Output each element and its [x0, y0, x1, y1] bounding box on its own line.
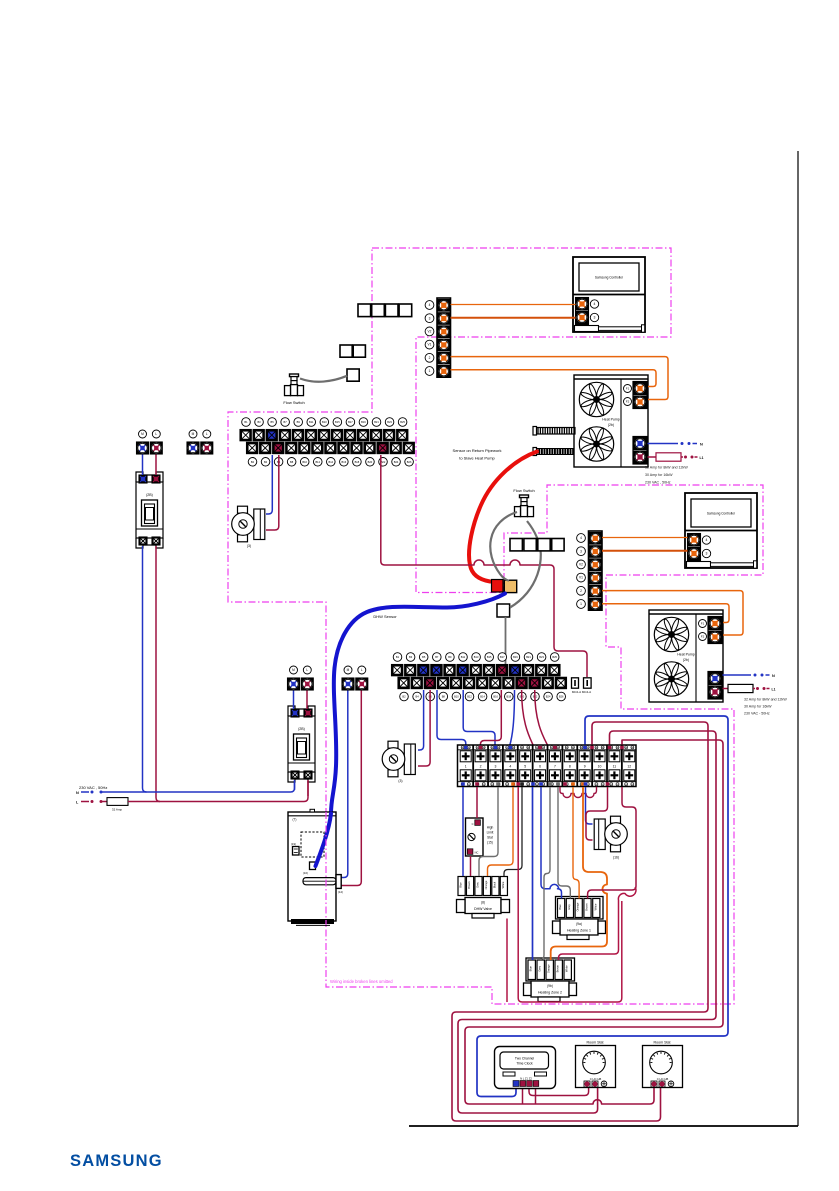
svg-text:B25: B25: [400, 420, 405, 424]
12-way terminal strip TB5: [458, 745, 637, 787]
svg-text:B15: B15: [487, 655, 492, 659]
svg-text:Black: Black: [492, 881, 496, 888]
svg-text:B2: B2: [251, 460, 255, 464]
wire (maroon) to pump16: [586, 787, 608, 840]
wire B6b to pump P2: [418, 690, 430, 766]
svg-text:32 Amp for 8kW and 12kW: 32 Amp for 8kW and 12kW: [744, 698, 787, 702]
wire L to breaker: [155, 455, 157, 476]
svg-text:N L Z1 Z2: N L Z1 Z2: [520, 1076, 532, 1080]
svg-text:B19: B19: [361, 420, 366, 424]
heat pump HP2 (2b): [649, 610, 723, 702]
svg-text:B2: B2: [402, 695, 406, 699]
high limit stat (15): [466, 818, 484, 856]
svg-text:V2: V2: [428, 330, 432, 334]
svg-text:1: 1: [429, 369, 431, 373]
wire L to breaker Q2: [306, 691, 308, 710]
svg-text:M: M: [347, 668, 350, 672]
wire (maroon) TB5-11 to heating zone1 t4: [588, 787, 636, 899]
svg-text:4: 4: [706, 538, 708, 542]
svg-text:V1: V1: [428, 343, 432, 347]
M/L terminals pair 4: [342, 666, 369, 691]
terminal strip TB3 (B1-B26): [391, 664, 403, 676]
svg-text:Samsung Controller: Samsung Controller: [707, 512, 736, 516]
grey wire white square down to TB3: [505, 617, 507, 664]
svg-text:N: N: [76, 791, 79, 795]
svg-text:3: 3: [494, 764, 496, 768]
breaker1 down wires to supply: [143, 546, 147, 792]
svg-text:L: L: [206, 432, 208, 436]
svg-text:DHW Valve: DHW Valve: [474, 907, 492, 911]
svg-text:(16): (16): [613, 856, 619, 860]
wire (blue) to pump16: [586, 787, 593, 824]
svg-text:(9b): (9b): [547, 984, 553, 988]
svg-text:(3): (3): [398, 779, 402, 783]
svg-text:to Slave Heat Pump: to Slave Heat Pump: [459, 456, 495, 461]
svg-text:4: 4: [429, 303, 431, 307]
svg-text:Room Stat: Room Stat: [654, 1041, 671, 1045]
clock Z2 tap: [535, 1086, 537, 1104]
wire TB5-3 (grey) to DHW Grey: [479, 787, 498, 876]
wire (orange) to heating zone1 t3: [573, 787, 579, 899]
svg-text:Grey: Grey: [567, 903, 571, 909]
svg-text:B8: B8: [442, 695, 446, 699]
HP2 L1 wire + fuse: [723, 688, 729, 690]
heating zone 1 body: [560, 919, 598, 935]
cylinder (7): [288, 812, 336, 921]
svg-text:White: White: [501, 881, 505, 888]
maroon loop B: TB5 to room stat 1 HC: [458, 731, 716, 1113]
svg-text:1: 1: [465, 764, 467, 768]
svg-text:B4: B4: [416, 695, 420, 699]
svg-text:M: M: [141, 432, 144, 436]
maroon loop A: TB5 to room stat 2 HC: [452, 722, 708, 1121]
svg-text:B18: B18: [506, 695, 511, 699]
svg-text:M: M: [292, 668, 295, 672]
svg-text:B3: B3: [257, 420, 261, 424]
wire high limit stat NC to DHW Brown: [470, 856, 472, 876]
svg-text:B20: B20: [368, 460, 373, 464]
svg-text:B14: B14: [328, 460, 333, 464]
wire (blue) to heating zone2 t1: [532, 787, 534, 960]
svg-text:B26: B26: [407, 460, 412, 464]
wire B22 to MC4-A (maroon, with hops): [381, 455, 587, 677]
svg-text:9: 9: [584, 764, 586, 768]
terminal strip TB4 (vertical 4,3,V2,V1,2,1): [577, 531, 602, 611]
junction white square: [497, 604, 510, 617]
heat pump HP1 (2b): [574, 375, 648, 467]
svg-text:MC2-A MC4-A: MC2-A MC4-A: [572, 690, 591, 694]
svg-text:Stat: Stat: [487, 836, 493, 840]
svg-text:B17: B17: [500, 655, 505, 659]
svg-text:32 Amp for 8kW and 12kW: 32 Amp for 8kW and 12kW: [645, 466, 688, 470]
svg-text:B5: B5: [271, 420, 275, 424]
TB5 bottom wire marks: [461, 782, 465, 785]
wire B5b to pump P2: [418, 690, 424, 750]
M/L terminals pair 2 (spare): [187, 430, 214, 455]
HP1 N wire: [648, 443, 679, 445]
svg-text:F2: F2: [626, 400, 630, 404]
svg-text:3: 3: [580, 549, 582, 553]
M/L terminals pair 1: [136, 430, 163, 455]
svg-text:B17: B17: [348, 420, 353, 424]
red sensor cable to junction: [469, 452, 537, 582]
grey wire FS2 left to tan connector: [490, 512, 517, 581]
wire B22b to terminal 6: [535, 690, 548, 746]
svg-text:30 Amp for 16kW: 30 Amp for 16kW: [744, 705, 772, 709]
svg-text:B24: B24: [394, 460, 399, 464]
svg-text:(10): (10): [303, 871, 308, 875]
svg-text:B9: B9: [448, 655, 452, 659]
immersion element (12): [303, 878, 336, 885]
svg-text:B18: B18: [355, 460, 360, 464]
svg-text:(8): (8): [481, 901, 485, 905]
wire B20 to terminal 5: [522, 690, 534, 746]
wire M to breaker Q2: [293, 691, 295, 710]
squiggle jumper under TB5: [560, 787, 597, 798]
svg-text:V1: V1: [579, 576, 583, 580]
svg-text:High: High: [487, 826, 494, 830]
svg-text:Blue: Blue: [459, 882, 463, 888]
svg-text:2: 2: [429, 356, 431, 360]
svg-text:(19): (19): [291, 842, 296, 846]
svg-text:DHW Sensor: DHW Sensor: [373, 614, 397, 619]
wire B17 to terminal 2: [480, 690, 501, 746]
MC4-A fuse: [584, 678, 592, 688]
svg-text:8: 8: [569, 764, 571, 768]
cylinder base: [291, 919, 334, 924]
svg-text:B11: B11: [309, 420, 314, 424]
DHW valve (8) terminals: [458, 877, 465, 896]
svg-text:B12: B12: [467, 695, 472, 699]
svg-text:B5: B5: [422, 655, 426, 659]
svg-text:B26: B26: [559, 695, 564, 699]
svg-text:B7: B7: [435, 655, 439, 659]
svg-text:L: L: [155, 432, 157, 436]
svg-text:B21: B21: [526, 655, 531, 659]
svg-text:Heat Pump: Heat Pump: [602, 418, 620, 422]
svg-text:M: M: [192, 432, 195, 436]
svg-text:White: White: [593, 903, 597, 910]
svg-text:F1: F1: [626, 387, 630, 391]
TB5 top wire marks: [464, 746, 468, 749]
svg-text:6: 6: [539, 764, 541, 768]
MC2-A fuse: [572, 678, 579, 688]
svg-text:Time Clock: Time Clock: [516, 1062, 533, 1066]
relay squares pair: [340, 345, 352, 357]
L supply line + fuse: [81, 801, 89, 803]
svg-text:B13: B13: [474, 655, 479, 659]
svg-text:L: L: [361, 668, 363, 672]
svg-text:Two Channel: Two Channel: [515, 1057, 535, 1061]
svg-text:Limit: Limit: [487, 831, 494, 835]
stat pocket (dashed): [301, 832, 324, 857]
HP1 L1 wire + fuse: [648, 456, 657, 458]
samsung controller U2: [685, 493, 757, 568]
junction red connector: [492, 580, 504, 593]
svg-text:Orange: Orange: [576, 902, 580, 911]
svg-text:Heat Pump: Heat Pump: [677, 653, 695, 657]
flow switch FS1: [285, 374, 304, 396]
svg-text:Brown: Brown: [556, 965, 560, 973]
svg-text:B13: B13: [322, 420, 327, 424]
maroon loop C: TB5 to room stat 2 C (with hop): [465, 740, 723, 1104]
svg-text:Sensor on Return Pipework: Sensor on Return Pipework: [453, 448, 502, 453]
page border: [797, 151, 799, 1126]
svg-text:B7: B7: [284, 420, 288, 424]
wire TB5-4 (orange) to DHW Orange: [488, 787, 514, 876]
pump P1 (3): [232, 506, 265, 548]
wire B5 to pump P1: [266, 455, 272, 514]
breaker2 down to supply L: [307, 780, 309, 796]
svg-text:B3: B3: [409, 655, 413, 659]
wire TB4-3 to controller U2 (orange): [602, 550, 688, 552]
svg-text:4: 4: [594, 302, 596, 306]
svg-text:(2B): (2B): [298, 727, 305, 731]
wire M to breaker: [142, 455, 144, 476]
svg-text:B4: B4: [264, 460, 268, 464]
wire TB5-2 to high limit stat C: [476, 787, 478, 818]
clock L tap: [522, 1086, 524, 1104]
blue loop TB5 to time clock N: [477, 716, 728, 1097]
svg-text:Room Stat: Room Stat: [587, 1041, 604, 1045]
svg-text:Flow Switch: Flow Switch: [513, 488, 534, 493]
pump P3 (16): [594, 816, 627, 859]
svg-text:10: 10: [598, 764, 602, 768]
terminal strip TB1 (vertical 4,3,V2,V1,2,1): [425, 298, 450, 378]
svg-text:B9: B9: [297, 420, 301, 424]
svg-text:(3): (3): [247, 544, 251, 548]
svg-text:(7): (7): [293, 818, 297, 822]
svg-text:B16: B16: [342, 460, 347, 464]
svg-text:Grey: Grey: [476, 881, 480, 887]
svg-text:7: 7: [554, 764, 556, 768]
N supply line: [81, 791, 89, 793]
svg-text:N: N: [700, 442, 703, 446]
svg-text:N: N: [772, 674, 775, 678]
breaker2 down to supply N: [294, 780, 296, 790]
svg-text:B19: B19: [513, 655, 518, 659]
breaker Q2 (2B): [288, 706, 315, 782]
grey wire FS1 to junction square: [300, 376, 347, 382]
svg-text:B1: B1: [244, 420, 248, 424]
heating zone 2 body: [531, 981, 569, 997]
svg-text:(2B): (2B): [146, 493, 153, 497]
svg-text:L1: L1: [772, 687, 776, 691]
wire B6 to pump P1: [266, 455, 279, 530]
svg-text:B23: B23: [387, 420, 392, 424]
svg-text:F1: F1: [701, 622, 705, 626]
breaker Q1 (2B): [136, 472, 163, 548]
svg-text:Flow Switch: Flow Switch: [283, 400, 304, 405]
wire TB4-1 to HP2 F1 (orange): [602, 604, 729, 623]
svg-text:SAMSUNG: SAMSUNG: [70, 1152, 163, 1170]
DHW valve body: [465, 898, 501, 914]
svg-text:Brown: Brown: [467, 881, 471, 889]
wire TB4-2 to HP2 F2 (orange): [602, 591, 743, 635]
svg-text:B12: B12: [315, 460, 320, 464]
svg-text:B14: B14: [480, 695, 485, 699]
HP2 N wire: [723, 674, 752, 676]
svg-text:B8: B8: [290, 460, 294, 464]
wire B19 to terminal 4: [510, 690, 515, 746]
wire (grey) to heating zone2 t2: [541, 787, 550, 960]
svg-text:(12): (12): [338, 890, 343, 894]
svg-text:4: 4: [509, 764, 511, 768]
svg-text:B10: B10: [302, 460, 307, 464]
svg-text:(2b): (2b): [683, 658, 689, 662]
wire TB1-4 to controller (orange): [451, 304, 576, 306]
svg-text:B23: B23: [539, 655, 544, 659]
svg-text:230 VAC , 50Hz: 230 VAC , 50Hz: [79, 785, 107, 790]
svg-text:3: 3: [706, 552, 708, 556]
svg-text:NC: NC: [475, 851, 479, 855]
svg-text:Orange: Orange: [547, 964, 551, 973]
svg-text:F2: F2: [701, 635, 705, 639]
wires M/L pair 4 to immersion element: [341, 691, 348, 878]
wire (crimson) knot to heating zone2 t4: [559, 887, 636, 960]
svg-text:L1: L1: [700, 456, 704, 460]
wire (orange) big loop to heating zone2 t3: [551, 787, 607, 960]
svg-text:32 Amp: 32 Amp: [112, 808, 123, 812]
svg-text:4: 4: [580, 536, 582, 540]
DHW sensor cable (blue): [316, 594, 506, 867]
junction tan connector: [504, 580, 516, 592]
grey wire FS2 bottom to white square: [510, 521, 541, 608]
svg-text:B11: B11: [461, 655, 466, 659]
svg-text:C HC HB: C HC HB: [657, 1077, 669, 1081]
junction square (flow switch 1): [347, 369, 359, 381]
magenta broken-line enclosure: [228, 248, 763, 1004]
wire TB1-2 to HP1 F2 (orange): [451, 357, 669, 400]
svg-text:Wiring inside broken lines omi: Wiring inside broken lines omitted: [330, 979, 393, 984]
svg-text:Grey: Grey: [538, 965, 542, 971]
svg-text:Orange: Orange: [484, 880, 488, 889]
wire (crimson) U-link below zones: [518, 787, 622, 1002]
svg-text:B25: B25: [552, 655, 557, 659]
svg-text:3: 3: [429, 316, 431, 320]
svg-text:(15): (15): [487, 841, 493, 845]
svg-text:White: White: [565, 965, 569, 972]
svg-text:Blue: Blue: [558, 904, 562, 910]
svg-text:Blue: Blue: [529, 966, 533, 972]
svg-text:2: 2: [580, 589, 582, 593]
wire TB1-3 to controller (orange): [451, 317, 576, 319]
wire TB5-1 to DHW valve Blue: [462, 787, 464, 876]
svg-text:B24: B24: [546, 695, 551, 699]
M/L terminals pair 3: [287, 666, 314, 691]
svg-text:1: 1: [580, 602, 582, 606]
svg-text:Brown: Brown: [585, 903, 589, 911]
wire TB4-4 to controller U2 (orange): [602, 537, 688, 539]
svg-text:B15: B15: [335, 420, 340, 424]
flow switch FS2: [515, 495, 534, 517]
svg-text:3: 3: [594, 316, 596, 320]
svg-text:B10: B10: [454, 695, 459, 699]
svg-text:12: 12: [627, 764, 631, 768]
svg-text:Samsung Controller: Samsung Controller: [595, 276, 624, 280]
svg-text:C HC HB: C HC HB: [590, 1077, 602, 1081]
svg-text:V2: V2: [579, 563, 583, 567]
heating zone 1 (9a) terminals: [556, 897, 604, 920]
wire TB1-1 to HP1 F1 (orange): [451, 370, 657, 387]
svg-text:L: L: [306, 668, 308, 672]
wire (grey) to heating zone1 t2: [558, 787, 570, 899]
sensor braided cable B: [533, 448, 574, 456]
relay squares row (4) second system: [510, 539, 522, 551]
terminal strip TB2 (B1-B26): [240, 429, 252, 441]
relay squares row (4): [358, 304, 371, 317]
svg-text:Heating Zone 2: Heating Zone 2: [538, 991, 562, 995]
svg-text:C: C: [472, 822, 474, 826]
sensor pocket (10): [310, 862, 316, 870]
sensor braided cable A: [533, 427, 575, 436]
wire (crimson) DHW valve to clock area: [506, 919, 508, 1003]
wire B11 to terminal 3: [463, 690, 495, 746]
DHW sensor cable inside cylinder: [316, 814, 332, 867]
wire TB5-5 (black) to DHW White: [504, 787, 522, 876]
svg-text:(2b): (2b): [608, 423, 614, 427]
svg-text:5: 5: [524, 764, 526, 768]
svg-text:30 Amp for 16kW: 30 Amp for 16kW: [645, 473, 673, 477]
wire (blue) to heating zone1 t1 (with hop): [541, 787, 562, 899]
pump P2 (3): [382, 741, 415, 783]
svg-text:B1: B1: [396, 655, 400, 659]
svg-text:(9a): (9a): [576, 922, 582, 926]
heating zone 2 (9b) terminals: [526, 958, 575, 981]
svg-text:Heating Zone 1: Heating Zone 1: [567, 929, 591, 933]
wire B7 to terminal 1: [437, 690, 466, 746]
svg-text:11: 11: [613, 764, 617, 768]
svg-text:2: 2: [480, 764, 482, 768]
magenta line over cylinder: [325, 812, 327, 925]
svg-text:B21: B21: [374, 420, 379, 424]
two channel time clock: [495, 1047, 556, 1089]
samsung controller U1: [573, 257, 645, 332]
svg-text:230 VAC , 50Hz: 230 VAC , 50Hz: [645, 481, 671, 485]
svg-text:B16: B16: [493, 695, 498, 699]
svg-text:230 VAC - 50Hz: 230 VAC - 50Hz: [744, 712, 770, 716]
clock Z1 to room stat 1 C: [529, 1086, 589, 1096]
